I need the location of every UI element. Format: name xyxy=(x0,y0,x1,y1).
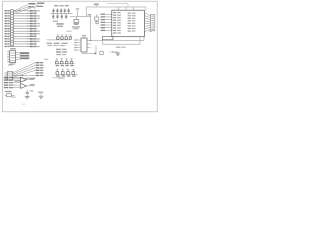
RN2 value labels xyxy=(56,75,75,78)
U3 right pins xyxy=(87,41,91,48)
capacitor C11 with ground xyxy=(38,92,43,99)
capacitors C6-C9 xyxy=(52,14,67,20)
U3 left pins xyxy=(74,39,81,50)
wire fan to P2 xyxy=(146,13,151,31)
capacitor bank labels xyxy=(54,5,69,6)
crystal label xyxy=(116,47,126,48)
VCC label xyxy=(94,3,99,7)
top bus wire xyxy=(107,4,128,7)
U2 left pin labels xyxy=(101,14,112,32)
schematic sheet border xyxy=(3,1,158,112)
VCC rail wire xyxy=(70,7,146,17)
U2 internal pin names xyxy=(113,12,135,34)
U2 right pins xyxy=(144,13,145,31)
J2 wires xyxy=(16,52,20,59)
crystal Y1 xyxy=(5,91,16,98)
connector J2 xyxy=(7,48,16,65)
ground symbol xyxy=(110,51,121,55)
J3 wire fan xyxy=(13,63,35,79)
resistor array RN1 xyxy=(55,58,75,64)
vertical rail wire xyxy=(88,14,91,40)
gate input labels xyxy=(4,77,14,88)
U2 bottom wires xyxy=(90,37,144,45)
gate input wires xyxy=(14,78,21,88)
diode group D1-D4 xyxy=(47,35,72,40)
net name row xyxy=(47,43,68,47)
logic gate U4B xyxy=(21,83,27,88)
gate output wires xyxy=(27,78,36,86)
net label row A xyxy=(56,49,67,55)
capacitor bank bus wire xyxy=(51,13,73,15)
wire to regulator xyxy=(82,46,103,55)
connector P2 xyxy=(151,15,155,31)
U2 top pins xyxy=(119,7,134,10)
transistor Q5 xyxy=(95,14,99,24)
resistor array RN2 xyxy=(56,69,79,74)
note text xyxy=(52,77,61,78)
regulator U3 xyxy=(81,35,87,52)
J2 net label block xyxy=(20,52,29,59)
capacitor value labels xyxy=(53,21,64,27)
RN1 value labels xyxy=(56,65,74,66)
title block text xyxy=(22,104,26,105)
logic gate U4A xyxy=(21,77,27,82)
crystal network X1 xyxy=(102,36,113,39)
J1 pin wires xyxy=(13,10,29,47)
top-left net name labels xyxy=(28,3,44,9)
capacitor C10 with ground xyxy=(25,90,34,99)
connector J3 xyxy=(5,64,13,80)
wire segment xyxy=(76,8,79,16)
wire fan to top labels xyxy=(14,4,31,13)
J3 fan labels xyxy=(15,31,153,82)
connector J1 xyxy=(5,10,14,48)
capacitors C1-C5 xyxy=(52,8,70,13)
J1 net labels xyxy=(30,10,40,47)
inductor L1 xyxy=(67,17,80,32)
microcontroller U2 xyxy=(112,10,145,37)
